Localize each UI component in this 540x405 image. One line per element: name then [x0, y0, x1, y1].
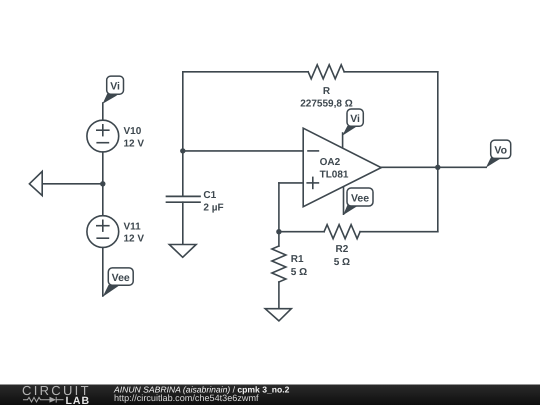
svg-text:http://circuitlab.com/che54t3e: http://circuitlab.com/che54t3e6zwmf — [114, 393, 259, 403]
svg-text:V11: V11 — [124, 221, 142, 232]
svg-text:2 µF: 2 µF — [203, 202, 223, 213]
wire junction down to R1 — [278, 232, 280, 246]
node junction at output — [435, 165, 440, 170]
svg-text:5 Ω: 5 Ω — [334, 257, 350, 268]
wire junction to V11 top — [102, 184, 104, 216]
svg-text:12 V: 12 V — [124, 234, 145, 245]
op-amp OA2 TL081 — [303, 128, 381, 214]
node junction R1/R2 — [276, 229, 281, 234]
wire V11 bottom to Vee label — [102, 248, 104, 297]
svg-text:R2: R2 — [336, 244, 349, 255]
ground below C1 — [169, 245, 196, 258]
svg-text:C1: C1 — [203, 190, 216, 201]
svg-text:TL081: TL081 — [320, 170, 349, 181]
wire non-inverting input vertical down — [278, 183, 280, 232]
svg-text:Vi: Vi — [350, 113, 360, 125]
wire R1 to ground — [278, 282, 280, 309]
wire feedback top-left vertical (C1 branch to R) — [182, 72, 184, 151]
capacitor C1 — [167, 190, 224, 213]
net label Vi (op-amp positive supply) — [342, 109, 363, 136]
ground (left-pointing) — [29, 171, 42, 195]
wire top feedback right segment — [344, 71, 438, 73]
wire inverting input — [183, 150, 303, 152]
voltage source V10 — [87, 120, 145, 152]
net label Vi (source node) — [103, 76, 124, 104]
wire V10 bottom to junction — [102, 152, 104, 184]
svg-text:Vi: Vi — [110, 81, 120, 93]
svg-text:227559,8 Ω: 227559,8 Ω — [300, 99, 353, 110]
wire capacitor to ground — [182, 202, 184, 244]
resistor R — [300, 65, 353, 110]
wire junction to left ground — [42, 183, 103, 185]
voltage source V11 — [87, 216, 145, 248]
node junction on C1 branch — [180, 148, 185, 153]
net label Vee (source node) — [103, 268, 134, 297]
CircuitLab logo squiggle (resistor + diode) — [23, 397, 64, 403]
net label Vo (output node) — [486, 140, 511, 168]
svg-text:Vee: Vee — [112, 272, 130, 284]
wire top feedback left segment — [183, 71, 308, 73]
svg-text:OA2: OA2 — [320, 157, 341, 168]
svg-text:R: R — [323, 86, 331, 97]
ground below R1 — [265, 309, 291, 321]
wire junction to R2 — [279, 231, 324, 233]
svg-text:Vo: Vo — [494, 145, 507, 157]
wire output — [381, 166, 486, 168]
svg-text:R1: R1 — [291, 254, 304, 265]
wire Vi label to V10 top — [102, 103, 104, 120]
wire right vertical down to output node — [437, 72, 439, 168]
svg-text:5 Ω: 5 Ω — [291, 267, 307, 278]
svg-text:LAB: LAB — [66, 395, 91, 405]
node junction between V10 and V11 — [100, 181, 105, 186]
resistor R2 — [324, 225, 360, 268]
wire R2 to right vertical — [360, 231, 438, 233]
svg-text:V10: V10 — [124, 126, 142, 137]
wire C1 branch junction down to capacitor — [182, 151, 184, 196]
svg-text:Vee: Vee — [351, 192, 369, 204]
wire non-inverting input horizontal — [279, 182, 303, 184]
svg-text:12 V: 12 V — [124, 138, 145, 149]
resistor R1 — [272, 246, 307, 282]
net label Vee (op-amp negative supply) — [343, 188, 373, 215]
wire right vertical output node down to R2 — [437, 167, 439, 231]
